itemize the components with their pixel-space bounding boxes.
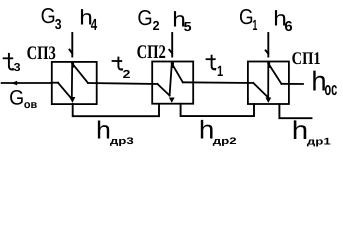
svg-text:h: h <box>292 116 308 145</box>
heater U1 box СП1 <box>248 62 289 105</box>
label G1 steam flow <box>239 5 257 34</box>
label t3 water temperature <box>3 53 21 73</box>
arrowhead drain down inside СП1 <box>265 98 271 103</box>
label t2 water temperature <box>112 57 131 81</box>
svg-text:1: 1 <box>252 17 257 33</box>
svg-text:G: G <box>41 4 56 28</box>
wire t2 segment СП3 to СП2 <box>88 83 158 84</box>
arrowhead drain down inside СП3 <box>69 97 75 103</box>
svg-text:2: 2 <box>123 67 131 80</box>
label h_dr3 drain enthalpy <box>96 116 134 146</box>
svg-text:др2: др2 <box>213 135 237 146</box>
wire steam inlet line to СП3 <box>70 33 73 57</box>
arrowhead steam down into СП1 <box>267 62 270 68</box>
svg-text:5: 5 <box>184 19 192 34</box>
wire t1 segment СП2 to СП1 <box>183 81 254 84</box>
wire coil diagonal up-exit СП2 <box>172 63 183 82</box>
svg-text:СП3: СП3 <box>27 42 56 63</box>
label G2 steam flow <box>137 6 159 33</box>
svg-text:1: 1 <box>217 63 223 80</box>
label h4 steam enthalpy <box>79 5 97 33</box>
wire coil center vertical СП1 <box>267 63 269 97</box>
svg-text:др3: др3 <box>110 136 134 147</box>
label h_dr1 drain enthalpy <box>292 116 331 146</box>
label SP2 heater name <box>137 41 166 62</box>
wire coil diagonal down СП3 <box>58 83 72 99</box>
arrowhead water flow left on t3 line <box>11 81 17 86</box>
label h6 steam enthalpy <box>273 6 292 34</box>
svg-text:СП2: СП2 <box>137 41 166 62</box>
label SP3 heater name <box>27 42 56 63</box>
wire coil center vertical СП3 <box>71 63 73 99</box>
wire t3 main water line left segment <box>2 82 52 84</box>
heater U3 box СП3 <box>52 62 97 104</box>
svg-text:ов: ов <box>24 98 37 110</box>
wire coil diagonal up-exit СП3 <box>72 63 88 83</box>
wire h_os condensate inlet stub right of СП1 <box>281 83 303 85</box>
svg-text:G: G <box>137 6 152 30</box>
svg-text:2: 2 <box>153 18 160 33</box>
arrowhead steam down into СП3 <box>71 62 74 68</box>
label G3 steam flow <box>41 4 62 32</box>
wire steam inlet line to СП1 <box>266 33 269 57</box>
svg-text:ос: ос <box>325 78 338 99</box>
wire water entry stub into СП3 <box>52 82 59 84</box>
svg-text:3: 3 <box>14 61 21 74</box>
svg-text:h: h <box>96 116 111 144</box>
label SP1 heater name <box>292 48 321 68</box>
svg-text:G: G <box>239 5 254 29</box>
wire coil diagonal down СП1 <box>253 83 268 98</box>
svg-text:СП1: СП1 <box>292 48 321 68</box>
wire steam inlet line to СП2 <box>169 33 172 57</box>
label G_ov network water flow <box>9 86 37 111</box>
label h_os return water enthalpy <box>311 66 337 99</box>
arrowhead steam down into СП2 <box>171 62 174 68</box>
svg-text:др1: др1 <box>307 136 331 147</box>
svg-text:6: 6 <box>284 18 292 34</box>
wire coil diagonal down СП2 <box>158 84 170 96</box>
label h5 steam enthalpy <box>172 7 191 33</box>
svg-text:G: G <box>9 86 24 109</box>
label h_dr2 drain enthalpy <box>199 115 237 146</box>
label t1 water temperature <box>206 55 224 80</box>
wire drain h_dr3 U-bend from СП3 to СП2 <box>73 104 159 116</box>
svg-text:4: 4 <box>91 16 97 34</box>
arrowhead drain down inside СП2 <box>169 98 175 103</box>
wire coil diagonal up-exit СП1 <box>268 63 281 83</box>
wire coil center vertical СП2 <box>170 63 172 95</box>
wire drain h_dr2 U-bend from СП2 to СП1 <box>181 104 254 116</box>
svg-text:h: h <box>199 115 214 144</box>
svg-text:3: 3 <box>55 16 62 32</box>
svg-text:h: h <box>311 66 326 97</box>
wire drain h_dr1 outlet from СП1 <box>279 104 311 118</box>
heater U2 box СП2 <box>152 62 193 104</box>
